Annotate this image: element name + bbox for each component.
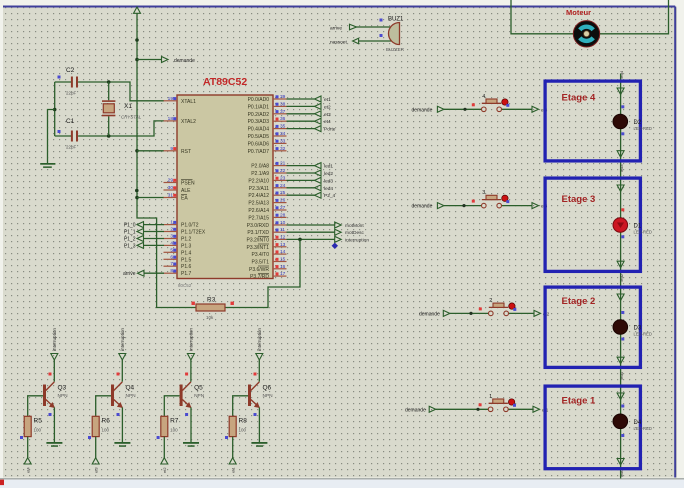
svg-text:et2: et2 bbox=[162, 467, 167, 473]
svg-text:33: 33 bbox=[280, 138, 286, 144]
svg-text:led3: led3 bbox=[324, 178, 333, 184]
svg-text:1: 1 bbox=[489, 394, 492, 400]
wire emitter Q4 bbox=[121, 407, 123, 442]
svg-text:P0.0/AD0: P0.0/AD0 bbox=[248, 97, 270, 103]
svg-text:demande: demande bbox=[412, 204, 433, 210]
svg-text:P1.2: P1.2 bbox=[181, 237, 192, 243]
junction C2-crystal bbox=[107, 80, 111, 84]
op chip U1 AT89C52 body bbox=[177, 95, 273, 288]
terminal arrow bottom box 3 bbox=[617, 261, 624, 268]
net label led3 vertical bbox=[619, 164, 624, 172]
svg-text:24: 24 bbox=[280, 183, 286, 189]
svg-text:arrive: arrive bbox=[123, 271, 136, 277]
svg-text:P3.4/T0: P3.4/T0 bbox=[251, 252, 269, 258]
wire base Q4 to R6 bbox=[96, 396, 111, 417]
svg-text:R6: R6 bbox=[102, 418, 111, 425]
svg-text:P0.4/AD4: P0.4/AD4 bbox=[248, 127, 270, 133]
svg-text:7: 7 bbox=[170, 261, 173, 267]
terminal arrive (P1.7) bbox=[123, 270, 164, 277]
pin 31 EA left bbox=[164, 193, 189, 202]
svg-text:P3.7/RD: P3.7/RD bbox=[250, 274, 269, 280]
svg-text:P2.0/A8: P2.0/A8 bbox=[251, 164, 269, 170]
terminal nassoet buzzer bbox=[330, 38, 359, 45]
pin 13 P3.3/INT1 right bbox=[246, 242, 286, 251]
svg-text:led2: led2 bbox=[324, 171, 333, 177]
svg-text:Etage 2: Etage 2 bbox=[562, 296, 596, 307]
svg-text:P3.3/INT1: P3.3/INT1 bbox=[246, 245, 269, 251]
pin 37 P0.2/AD2 right bbox=[248, 109, 287, 118]
svg-text:led4: led4 bbox=[619, 70, 624, 78]
svg-text:demande: demande bbox=[419, 311, 440, 317]
svg-text:100: 100 bbox=[239, 428, 247, 433]
svg-text:P2.1/A9: P2.1/A9 bbox=[251, 171, 269, 177]
terminal arrive buzzer bbox=[330, 24, 357, 31]
svg-text:P3.6/WR: P3.6/WR bbox=[249, 267, 269, 273]
transistor Q6 bbox=[248, 382, 273, 408]
transistor Q3 bbox=[43, 382, 68, 408]
switch button 1 bbox=[479, 394, 516, 412]
junction RST tee bbox=[135, 149, 139, 153]
junction mark row 4 bbox=[463, 108, 466, 111]
svg-text:37: 37 bbox=[280, 109, 286, 115]
terminal P1_2 bbox=[124, 236, 164, 243]
svg-text:80C52: 80C52 bbox=[178, 283, 192, 288]
svg-text:P2.7/A15: P2.7/A15 bbox=[248, 215, 269, 221]
terminal arrow bottom box 1 bbox=[617, 459, 624, 466]
state square emitter Q3 bbox=[49, 413, 52, 416]
svg-text:10: 10 bbox=[280, 220, 286, 226]
transistor Q5 bbox=[180, 382, 205, 408]
crystal X1 bbox=[102, 100, 142, 119]
terminal demande row 1 bbox=[405, 406, 436, 413]
svg-text:BUZZER: BUZZER bbox=[386, 47, 405, 52]
transistor Q4 bbox=[111, 382, 136, 408]
pin 16 P3.6/WR right bbox=[249, 264, 287, 273]
svg-text:P2.3/A11: P2.3/A11 bbox=[249, 186, 269, 192]
pin 14 P3.4/T0 right bbox=[251, 249, 286, 258]
svg-text:30: 30 bbox=[168, 185, 174, 191]
terminal interruption Q5 bbox=[187, 328, 194, 360]
svg-text:D2: D2 bbox=[634, 120, 642, 126]
terminal interruption Q4 bbox=[119, 328, 126, 360]
svg-text:demande: demande bbox=[174, 58, 195, 64]
state squares box 2 bbox=[621, 311, 624, 341]
pin 8 P1.7 left bbox=[164, 268, 192, 277]
wire motor left bbox=[511, 0, 573, 34]
pin 2 P1.1/T2EX left bbox=[164, 227, 206, 236]
svg-text:R5: R5 bbox=[34, 418, 43, 425]
ground symbol crystal bbox=[40, 163, 55, 168]
svg-text:et3: et3 bbox=[94, 467, 99, 473]
svg-text:D1: D1 bbox=[634, 224, 642, 230]
wire ground rail left bbox=[54, 82, 56, 136]
ground Q4 bbox=[114, 442, 130, 447]
svg-text:12: 12 bbox=[280, 234, 286, 240]
svg-text:1: 1 bbox=[170, 220, 173, 226]
LED D2 box 4 bbox=[613, 114, 652, 131]
power terminal VCC top bbox=[134, 7, 141, 13]
svg-text:13: 13 bbox=[280, 242, 286, 248]
svg-text:36: 36 bbox=[280, 116, 286, 122]
svg-text:15: 15 bbox=[280, 257, 286, 263]
wire collector Q3 bbox=[53, 360, 55, 382]
svg-text:23: 23 bbox=[280, 175, 286, 181]
svg-text:et1: et1 bbox=[324, 97, 331, 103]
wire ground branch bbox=[48, 110, 55, 164]
terminal P1_0 bbox=[124, 222, 164, 229]
pin 3 P1.2 left bbox=[164, 234, 192, 243]
svg-text:CRYSTAL: CRYSTAL bbox=[121, 115, 142, 120]
svg-text:Q3: Q3 bbox=[58, 385, 67, 392]
junction mark row 2 bbox=[469, 312, 472, 315]
sheet border right bbox=[674, 7, 676, 478]
pin 17 P3.7/RD right bbox=[250, 271, 286, 280]
wire nassoet-buzzer bbox=[359, 40, 391, 42]
svg-text:P2_4: P2_4 bbox=[324, 193, 336, 199]
svg-text:motMont: motMont bbox=[345, 223, 364, 229]
state square R5 bbox=[20, 436, 23, 439]
pin 11 P3.1/TXD right bbox=[247, 227, 286, 236]
pin 35 P0.4/AD4 right bbox=[248, 124, 287, 133]
terminal demande row 2 bbox=[419, 310, 450, 317]
terminal arrow top box 4 bbox=[617, 88, 624, 95]
svg-text:19: 19 bbox=[168, 96, 174, 102]
pin 33 P0.6/AD6 right bbox=[248, 138, 287, 147]
svg-text:14: 14 bbox=[280, 249, 286, 255]
svg-text:interruption: interruption bbox=[120, 328, 125, 351]
svg-text:26: 26 bbox=[280, 198, 286, 204]
label Moteur bbox=[566, 8, 591, 17]
junction on rail y40 bbox=[135, 38, 139, 42]
svg-text:Etage 1: Etage 1 bbox=[562, 396, 597, 407]
net label led2 vertical bbox=[619, 273, 624, 281]
svg-text:P2.6/A14: P2.6/A14 bbox=[248, 208, 269, 214]
ground Q6 bbox=[251, 442, 267, 447]
svg-text:6: 6 bbox=[170, 254, 173, 260]
junction C1-crystal bbox=[107, 134, 111, 138]
pin 7 P1.6 left bbox=[164, 261, 192, 270]
state square emitter Q5 bbox=[185, 413, 188, 416]
svg-text:XTAL1: XTAL1 bbox=[181, 99, 196, 105]
svg-text:LED-RED: LED-RED bbox=[634, 332, 652, 337]
svg-text:Q6: Q6 bbox=[263, 385, 272, 392]
capacitor C2 bbox=[58, 67, 79, 96]
wire arrive-buzzer bbox=[355, 26, 391, 28]
svg-text:P2.5/A13: P2.5/A13 bbox=[248, 201, 269, 207]
wire collector Q5 bbox=[190, 360, 192, 382]
wire emitter Q3 bbox=[53, 407, 55, 442]
svg-text:18: 18 bbox=[168, 116, 174, 122]
pin 28 P2.7/A15 right bbox=[248, 212, 286, 221]
svg-text:P1_1: P1_1 bbox=[124, 230, 136, 236]
capacitor C1 bbox=[58, 118, 79, 150]
terminal demande row 3 bbox=[412, 203, 444, 210]
pin 5 P1.4 left bbox=[164, 247, 192, 256]
svg-text:Q4: Q4 bbox=[126, 385, 135, 392]
terminal arrow top box 1 bbox=[617, 393, 624, 400]
svg-text:P3.1/TXD: P3.1/TXD bbox=[247, 230, 269, 236]
terminal interruption Q3 bbox=[51, 328, 58, 360]
terminal et2 bottom bbox=[161, 458, 168, 473]
svg-text:P3.0/RXD: P3.0/RXD bbox=[247, 223, 270, 229]
svg-text:led1: led1 bbox=[324, 164, 333, 170]
terminal net et4 row bbox=[532, 106, 548, 112]
svg-text:5: 5 bbox=[170, 247, 173, 253]
state squares box 3 bbox=[621, 208, 624, 238]
svg-text:XTAL2: XTAL2 bbox=[181, 119, 196, 125]
net label led0 vertical bbox=[619, 469, 624, 477]
svg-text:11: 11 bbox=[280, 227, 285, 233]
wire base Q5 to R7 bbox=[164, 396, 179, 417]
svg-text:LED-RED: LED-RED bbox=[634, 126, 652, 131]
state square R8 bbox=[225, 436, 228, 439]
svg-text:P0.1/AD1: P0.1/AD1 bbox=[248, 104, 270, 110]
pin 23 P2.2/A10 right bbox=[248, 175, 286, 184]
svg-text:EA: EA bbox=[181, 196, 188, 202]
terminal interruption Q6 bbox=[256, 328, 263, 360]
wire R3 right to interruption bbox=[225, 239, 300, 307]
svg-text:P1.5: P1.5 bbox=[181, 257, 192, 263]
ground Q5 bbox=[183, 442, 199, 447]
state square emitter Q6 bbox=[254, 413, 257, 416]
svg-text:LED-RED: LED-RED bbox=[634, 426, 652, 431]
wire EA branch bbox=[137, 197, 164, 199]
svg-text:38: 38 bbox=[280, 101, 286, 107]
pin 9 RST left bbox=[164, 146, 192, 155]
svg-text:P1_3: P1_3 bbox=[124, 243, 136, 249]
window bottom strip bbox=[0, 478, 684, 488]
wire/terminal Porte bbox=[287, 126, 336, 133]
wire R5 bottom bbox=[27, 437, 29, 458]
svg-text:P0.2/AD2: P0.2/AD2 bbox=[248, 112, 270, 118]
motor Moteur bbox=[573, 21, 599, 47]
junction mark row 3 bbox=[462, 204, 465, 207]
svg-text:Porte: Porte bbox=[324, 127, 336, 133]
svg-text:21: 21 bbox=[280, 161, 286, 167]
svg-text:et2: et2 bbox=[324, 104, 331, 110]
label Etage 2 bbox=[562, 296, 596, 307]
svg-text:led2: led2 bbox=[619, 273, 624, 281]
svg-text:NPN: NPN bbox=[126, 393, 137, 399]
svg-text:P3.5/T1: P3.5/T1 bbox=[251, 260, 269, 266]
svg-text:et3: et3 bbox=[324, 112, 331, 118]
wire collector Q4 bbox=[121, 360, 123, 382]
pin 38 P0.1/AD1 right bbox=[248, 101, 287, 110]
state square R7 bbox=[157, 436, 160, 439]
junction demande tee bbox=[135, 58, 139, 62]
box Etage 4 bbox=[545, 81, 640, 161]
svg-text:P2.4/A12: P2.4/A12 bbox=[248, 193, 269, 199]
svg-text:34: 34 bbox=[280, 131, 286, 137]
svg-text:P1.1/T2EX: P1.1/T2EX bbox=[181, 230, 206, 236]
net label led4 vertical bbox=[619, 70, 624, 78]
resistor R6 bbox=[92, 416, 110, 436]
terminal net et2 row bbox=[534, 310, 550, 316]
svg-text:X1: X1 bbox=[124, 103, 132, 110]
pin 24 P2.3/A11 right bbox=[249, 183, 287, 192]
svg-text:motDesc: motDesc bbox=[345, 230, 365, 236]
resistor R5 bbox=[24, 416, 42, 436]
terminal P1_1 bbox=[124, 229, 164, 236]
state square collector Q5 bbox=[185, 373, 188, 376]
wire/terminal et2 bbox=[287, 103, 332, 110]
svg-text:R3: R3 bbox=[207, 297, 216, 304]
state square collector Q4 bbox=[117, 373, 120, 376]
svg-text:ALE: ALE bbox=[181, 188, 191, 194]
svg-text:LED-RED: LED-RED bbox=[634, 230, 652, 235]
pin 22 P2.1/A9 right bbox=[251, 168, 286, 177]
LED D3 box 2 bbox=[613, 320, 652, 337]
svg-text:P1_2: P1_2 bbox=[124, 237, 136, 243]
junction mark row 1 bbox=[476, 408, 479, 411]
svg-text:interruption: interruption bbox=[257, 328, 262, 351]
svg-text:2: 2 bbox=[170, 227, 173, 233]
switch button 2 bbox=[479, 298, 517, 316]
pin 36 P0.3/AD3 right bbox=[248, 116, 287, 125]
svg-text:100: 100 bbox=[102, 428, 110, 433]
label AT89C52 bbox=[203, 76, 247, 88]
svg-text:Moteur: Moteur bbox=[566, 8, 591, 17]
wire/terminal et1 bbox=[287, 96, 332, 103]
svg-text:Etage 3: Etage 3 bbox=[562, 194, 596, 205]
wire R8 bottom bbox=[232, 437, 234, 458]
resistor R7 bbox=[161, 416, 179, 436]
svg-text:et1: et1 bbox=[231, 467, 236, 473]
wire base Q3 to R5 bbox=[28, 396, 43, 417]
pin 19 XTAL1 left bbox=[164, 96, 197, 105]
svg-text:D3: D3 bbox=[634, 326, 642, 332]
svg-text:arrive: arrive bbox=[330, 26, 342, 32]
svg-text:AT89C52: AT89C52 bbox=[203, 76, 247, 88]
svg-text:25: 25 bbox=[280, 190, 286, 196]
state square collector Q6 bbox=[254, 373, 257, 376]
svg-text:PSEN: PSEN bbox=[181, 181, 195, 187]
LED D1 box 3 bbox=[613, 218, 652, 235]
terminal net et3 row bbox=[532, 203, 548, 209]
pin 4 P1.3 left bbox=[164, 240, 192, 249]
pin 32 P0.7/AD7 right bbox=[248, 146, 287, 155]
wire demande row 2 bbox=[450, 312, 534, 314]
svg-text:P1.7: P1.7 bbox=[181, 271, 192, 277]
wire/terminal et3 bbox=[287, 111, 332, 118]
svg-text:P1.0/T2: P1.0/T2 bbox=[181, 223, 199, 229]
svg-text:R7: R7 bbox=[170, 418, 179, 425]
box Etage 3 bbox=[545, 178, 640, 271]
svg-text:16: 16 bbox=[280, 264, 286, 270]
wire emitter Q6 bbox=[258, 407, 260, 442]
ground Q3 bbox=[46, 442, 62, 447]
pin 10 P3.0/RXD right bbox=[247, 220, 287, 229]
svg-text:8: 8 bbox=[170, 268, 173, 274]
svg-text:28: 28 bbox=[280, 212, 286, 218]
wire R6 bottom bbox=[95, 437, 97, 458]
svg-text:22pF: 22pF bbox=[66, 91, 77, 96]
svg-text:interruption: interruption bbox=[345, 237, 369, 243]
svg-text:et4: et4 bbox=[26, 467, 31, 473]
terminal arrow bottom box 4 bbox=[617, 151, 624, 158]
pin 21 P2.0/A8 right bbox=[251, 161, 286, 170]
svg-text:100: 100 bbox=[170, 428, 178, 433]
wire motor right bbox=[600, 0, 669, 34]
svg-text:P0.3/AD3: P0.3/AD3 bbox=[248, 119, 270, 125]
wire/terminal led4 bbox=[287, 185, 334, 192]
pin 39 P0.0/AD0 right bbox=[248, 94, 287, 103]
svg-text:2: 2 bbox=[489, 298, 492, 304]
wire/terminal interruption bbox=[287, 236, 370, 243]
wire/terminal motDesc bbox=[287, 229, 365, 236]
svg-text:led1: led1 bbox=[619, 371, 624, 379]
label Etage 3 bbox=[562, 194, 596, 205]
svg-text:interruption: interruption bbox=[189, 328, 194, 351]
terminal P1_3 bbox=[124, 242, 164, 249]
svg-text:Etage 4: Etage 4 bbox=[562, 92, 597, 103]
terminal demande row 4 bbox=[412, 106, 444, 113]
svg-text:100: 100 bbox=[34, 428, 42, 433]
terminal et3 bottom bbox=[92, 458, 99, 473]
svg-text:NPN: NPN bbox=[263, 393, 274, 399]
svg-text:NPN: NPN bbox=[194, 393, 205, 399]
pin 15 P3.5/T1 right bbox=[251, 257, 286, 266]
wire/terminal motMont bbox=[287, 222, 365, 229]
wire base Q6 to R8 bbox=[233, 396, 248, 417]
svg-text:interruption: interruption bbox=[52, 328, 57, 351]
switch button 3 bbox=[472, 190, 510, 208]
svg-text:22pF: 22pF bbox=[66, 145, 77, 150]
wire R7 bottom bbox=[163, 437, 165, 458]
svg-text:et4: et4 bbox=[324, 119, 331, 125]
svg-text:32: 32 bbox=[280, 146, 286, 152]
wire C1 net to XTAL2 bbox=[55, 121, 164, 136]
wire demande branch bbox=[137, 59, 162, 61]
svg-text:35: 35 bbox=[280, 124, 286, 130]
pin 18 XTAL2 left bbox=[164, 116, 197, 125]
state square collector Q3 bbox=[49, 373, 52, 376]
svg-text:3: 3 bbox=[482, 190, 485, 196]
terminal arrow top box 3 bbox=[617, 185, 624, 192]
svg-text:nassoet: nassoet bbox=[330, 40, 347, 46]
pin 29 PSEN left bbox=[164, 178, 196, 187]
terminal et4 bottom bbox=[24, 458, 31, 473]
LED D4 box 1 bbox=[613, 414, 652, 431]
svg-text:led3: led3 bbox=[619, 164, 624, 172]
svg-text:P0.5/AD5: P0.5/AD5 bbox=[248, 134, 270, 140]
svg-text:P2.2/A10: P2.2/A10 bbox=[248, 178, 269, 184]
svg-text:29: 29 bbox=[168, 178, 174, 184]
wire/terminal led3 bbox=[287, 177, 334, 184]
wire C2 net to XTAL1 bbox=[55, 82, 164, 101]
box Etage 2 bbox=[545, 287, 640, 367]
svg-text:NPN: NPN bbox=[58, 393, 69, 399]
svg-text:17: 17 bbox=[280, 271, 286, 277]
svg-text:31: 31 bbox=[168, 193, 174, 199]
terminal et1 bottom bbox=[229, 458, 236, 473]
box Etage 1 bbox=[545, 386, 640, 469]
wire crystal vertical bbox=[108, 82, 110, 136]
svg-text:demande: demande bbox=[412, 107, 433, 113]
pin 27 P2.6/A14 right bbox=[248, 205, 286, 214]
svg-text:27: 27 bbox=[280, 205, 286, 211]
net label led1 vertical bbox=[619, 371, 624, 379]
wire emitter Q5 bbox=[190, 407, 192, 442]
svg-text:demande: demande bbox=[405, 407, 426, 413]
terminal demande top bbox=[162, 57, 196, 65]
junction interruption/R3 bbox=[298, 238, 302, 242]
wire/terminal led1 bbox=[287, 163, 334, 170]
junction EA tee bbox=[135, 196, 139, 200]
svg-text:22: 22 bbox=[280, 168, 286, 174]
svg-text:R8: R8 bbox=[239, 418, 248, 425]
pin 6 P1.5 left bbox=[164, 254, 192, 263]
